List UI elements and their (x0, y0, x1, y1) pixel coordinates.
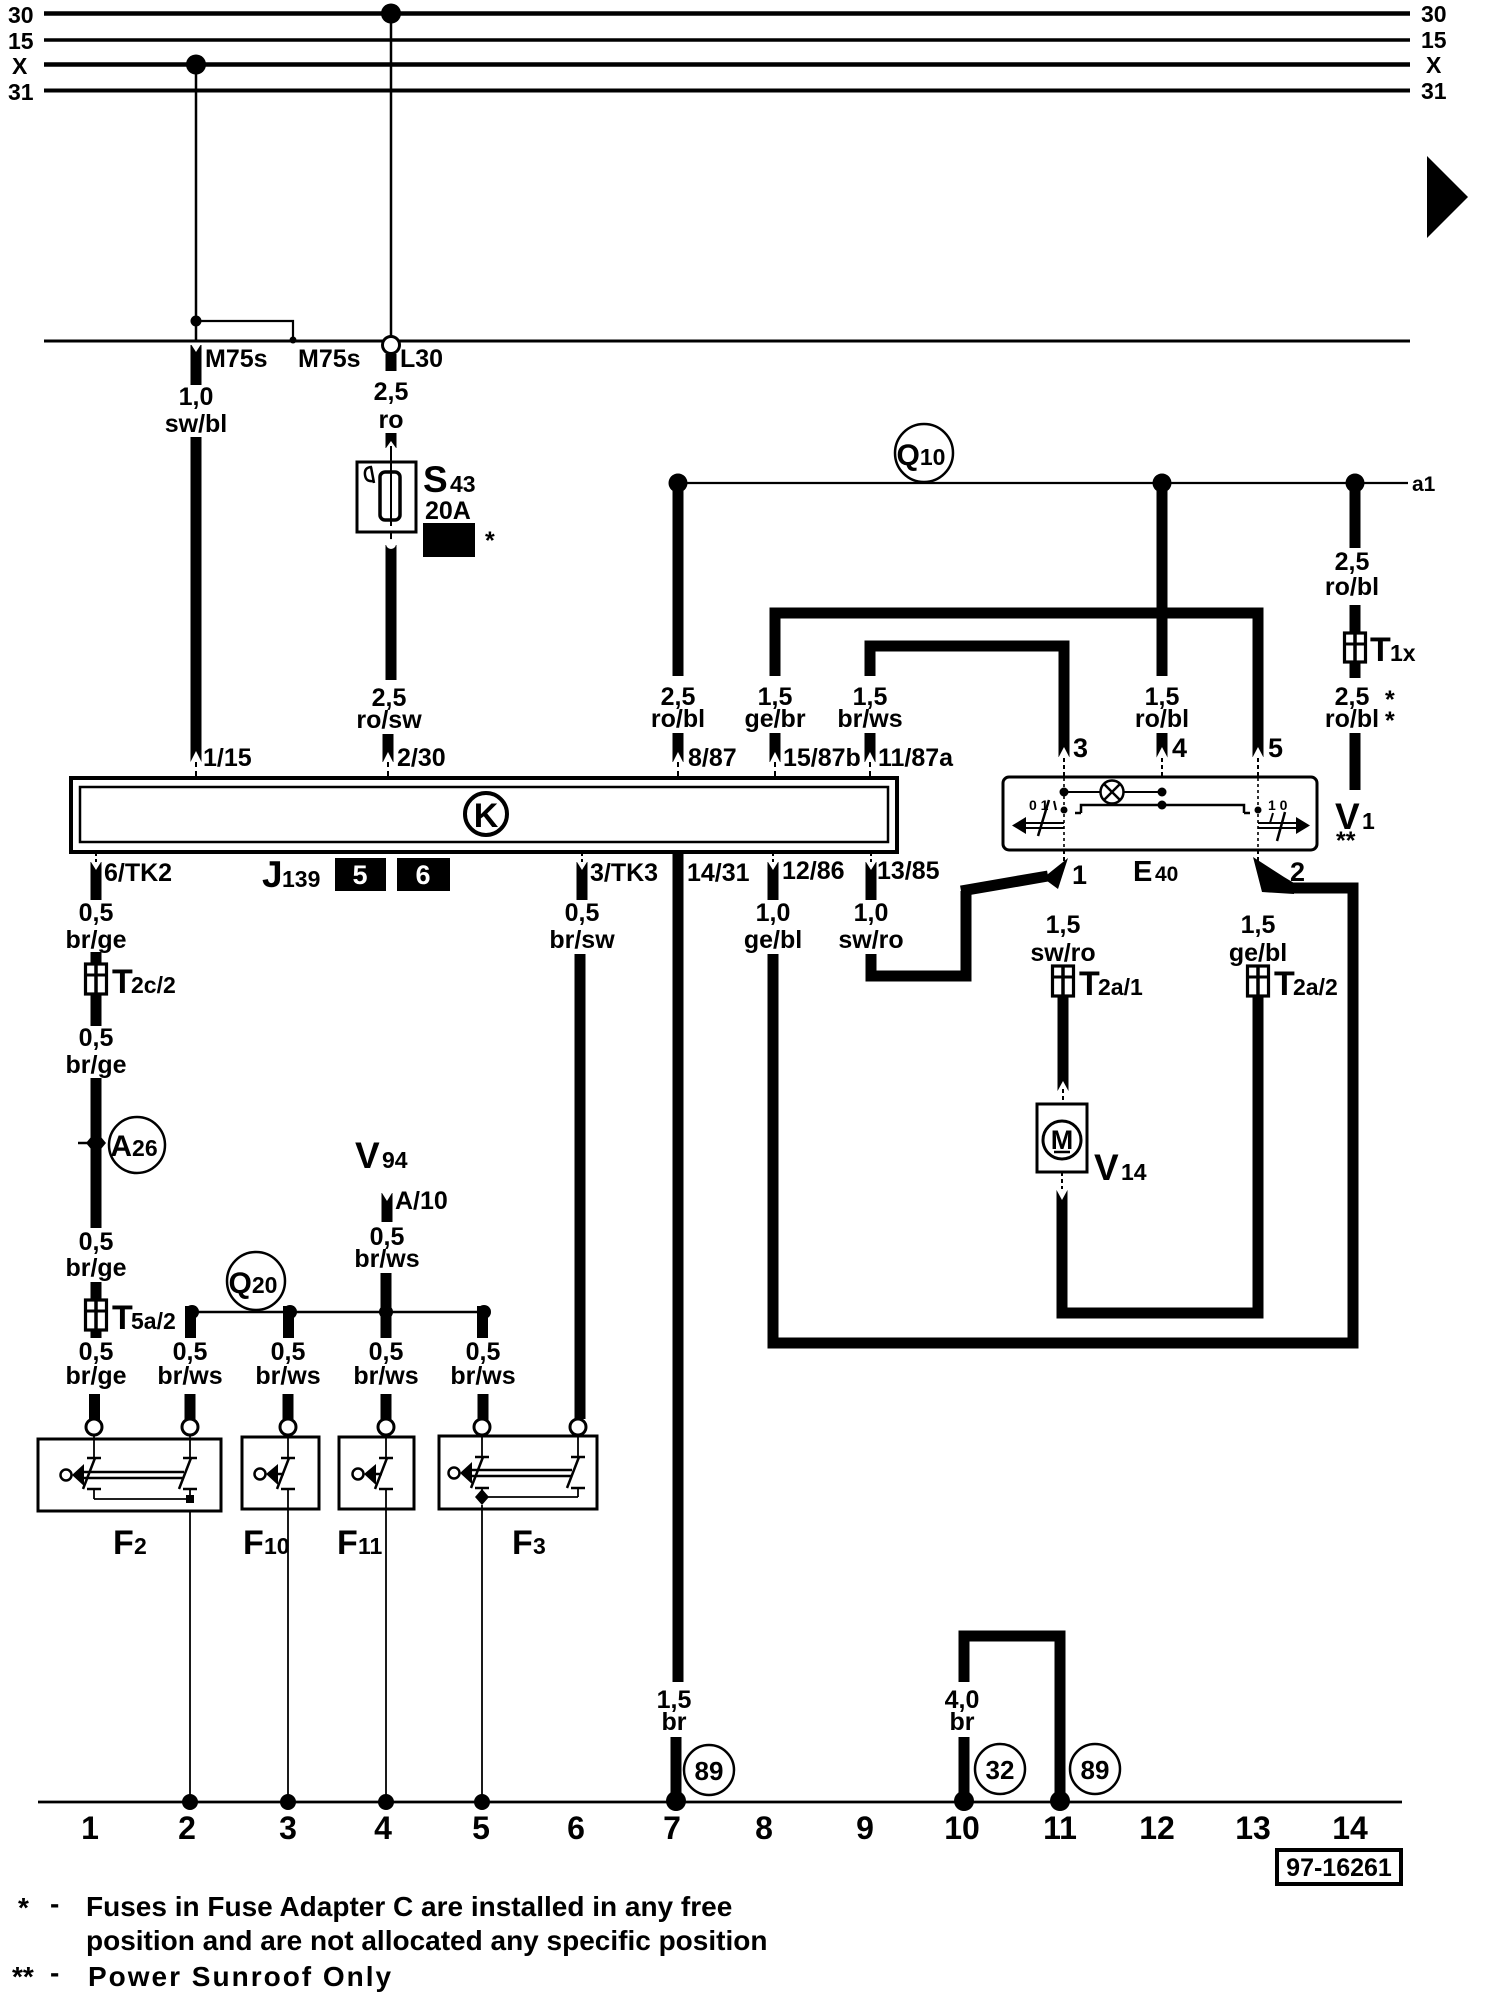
svg-text:3: 3 (1073, 733, 1088, 763)
svg-text:0,5: 0,5 (565, 899, 600, 927)
svg-text:0,5: 0,5 (79, 899, 114, 927)
lead 3/TK3 (581, 852, 583, 862)
svg-text:K: K (474, 797, 499, 835)
svg-text:4: 4 (1172, 733, 1187, 763)
F10 lead (287, 1435, 289, 1458)
svg-text:2: 2 (178, 1810, 196, 1846)
svg-text:2: 2 (134, 1533, 147, 1559)
svg-text:T: T (112, 1299, 133, 1337)
node A26 diamond (86, 1131, 106, 1155)
wire 2,5 ro/bl (V1 branch upper) (1350, 483, 1361, 548)
node track 7 (666, 1791, 686, 1811)
svg-text:Q10: Q10 (897, 439, 946, 472)
wire 1,5 ge/br elbow (15/87b to E40 pin5) (775, 613, 1258, 757)
node A26 tick (78, 1142, 88, 1145)
svg-text:1,0: 1,0 (756, 899, 791, 927)
lead below fuse (390, 532, 392, 552)
F11 arrow (364, 1464, 376, 1485)
F11 terminal socket (378, 1419, 394, 1435)
F3 right lead (577, 1435, 579, 1457)
wire branch to second M75s (196, 321, 293, 341)
svg-text:br/sw: br/sw (549, 926, 615, 954)
svg-text:1: 1 (1362, 808, 1375, 834)
ground wire 4,0 br loop (964, 1636, 1060, 1801)
svg-text:20A: 20A (425, 497, 471, 525)
wire F10 to track 3 (287, 1509, 289, 1802)
connector T1x (1345, 633, 1366, 662)
terminal 13/85 stub (866, 862, 877, 900)
E40 left blade (1038, 800, 1049, 836)
svg-text:15: 15 (8, 28, 34, 54)
svg-text:Q20: Q20 (229, 1267, 278, 1300)
F11 bottom contact (379, 1488, 393, 1491)
svg-text:F: F (113, 1524, 134, 1562)
F3 left contact (475, 1456, 489, 1459)
F10 arrow (266, 1464, 278, 1485)
lead into fuse (390, 446, 392, 526)
svg-text:ro/bl: ro/bl (651, 705, 705, 733)
svg-text:8/87: 8/87 (688, 744, 737, 772)
F3 terminal right socket (570, 1419, 586, 1435)
F11 lead (385, 1435, 387, 1458)
svg-text:6: 6 (567, 1810, 585, 1846)
svg-text:T: T (112, 963, 133, 1001)
fuse S43 box (357, 462, 416, 532)
wire F3 to track 5 (481, 1505, 483, 1802)
svg-text:a1: a1 (1412, 473, 1436, 496)
F2 arrow (72, 1464, 84, 1486)
svg-text:13/85: 13/85 (877, 857, 940, 885)
bus bar X (44, 62, 1410, 67)
wire 2,5 ro/bl (8/87) (673, 483, 684, 676)
svg-text:*: * (485, 527, 495, 555)
F11 contact (379, 1457, 393, 1460)
F3 link wire (482, 1496, 578, 1498)
switch F10 box (242, 1437, 319, 1509)
svg-text:br/ge: br/ge (65, 1362, 126, 1390)
junction node on bus 30 (381, 4, 401, 24)
svg-text:31: 31 (1421, 78, 1447, 104)
fuse S43 hook mark (365, 467, 374, 483)
node lamp left (1060, 788, 1069, 797)
svg-text:sw/ro: sw/ro (838, 926, 903, 954)
wire designation circle Q20 (227, 1252, 285, 1310)
svg-text:1,5: 1,5 (1046, 911, 1081, 939)
F10 contact (281, 1457, 295, 1460)
svg-text:2a/2: 2a/2 (1293, 974, 1338, 1000)
wire 1,5 ro/bl (to E40 pin4) (1157, 483, 1168, 676)
svg-text:5: 5 (1268, 733, 1283, 763)
bus bar 15 (44, 38, 1410, 42)
F2 left contact (87, 1457, 101, 1460)
terminal 12/86 stub (768, 862, 779, 900)
F2 left lead (93, 1435, 95, 1458)
relay position box 5 (335, 858, 386, 891)
node track 4 (378, 1794, 394, 1810)
svg-text:15: 15 (1421, 27, 1447, 53)
svg-text:E: E (1133, 856, 1152, 888)
svg-text:br/ws: br/ws (354, 1245, 419, 1273)
wire 6/TK2 to T2c/2 (91, 952, 102, 966)
connector T5a/2 (86, 1300, 107, 1330)
svg-text:J: J (262, 854, 283, 895)
wire below T2c/2 (91, 994, 102, 1026)
svg-text:ge/bl: ge/bl (1229, 939, 1287, 967)
relay K circle (465, 793, 507, 835)
svg-text:br/ws: br/ws (353, 1362, 418, 1390)
svg-text:F: F (243, 1524, 264, 1562)
svg-text:A26: A26 (110, 1130, 157, 1163)
bus bar 31 (44, 89, 1410, 93)
wire stub above fuse (386, 433, 397, 448)
E40 pin1 lead (1063, 850, 1065, 864)
ground wire lower (959, 1737, 970, 1801)
svg-text:11: 11 (358, 1533, 383, 1559)
terminal 6/TK2 stub (91, 862, 102, 900)
E40 lamp wire (1064, 791, 1162, 793)
svg-text:br: br (662, 1708, 687, 1736)
wire 2,5 ro/sw cup (386, 545, 397, 561)
ground designation circle 89 (track 11) (1070, 1744, 1120, 1794)
wire diagonal to pin2 (1253, 857, 1294, 894)
terminal 2/30 stub (383, 734, 394, 762)
node a1 line (678, 482, 1408, 484)
node bridge center (1158, 801, 1167, 810)
svg-text:0,5: 0,5 (79, 1024, 114, 1052)
terminal 15/87b stub (770, 733, 781, 762)
svg-text:br/ge: br/ge (65, 926, 126, 954)
node lamp right (1158, 788, 1167, 797)
node track 11 (1050, 1791, 1070, 1811)
svg-text:14: 14 (1121, 1159, 1147, 1185)
F10 terminal socket (280, 1419, 296, 1435)
svg-text:M75s: M75s (205, 345, 268, 373)
lead 13/85 (870, 852, 872, 862)
terminal A/10 stub (382, 1193, 393, 1222)
wire to A26 (91, 1078, 102, 1228)
svg-text:1,5: 1,5 (1241, 911, 1276, 939)
E40 bridge bar (1081, 805, 1244, 813)
svg-text:43: 43 (450, 471, 476, 497)
svg-text:ro/bl: ro/bl (1135, 705, 1189, 733)
svg-text:ro/sw: ro/sw (356, 706, 422, 734)
svg-text:1,0: 1,0 (179, 383, 214, 411)
svg-text:Power Sunroof Only: Power Sunroof Only (88, 1961, 393, 1992)
svg-text:139: 139 (282, 866, 320, 892)
svg-text:89: 89 (695, 1756, 724, 1786)
svg-text:-: - (50, 1957, 59, 1988)
node on wire at branch (191, 316, 202, 327)
relay position box 6 (397, 858, 450, 891)
svg-text:2,5: 2,5 (1335, 548, 1370, 576)
svg-text:5a/2: 5a/2 (131, 1308, 176, 1334)
terminal M75s notch (192, 345, 201, 352)
wire 1,0 sw/bl down to relay 1/15 (191, 437, 202, 762)
svg-text:8: 8 (755, 1810, 773, 1846)
svg-text:89: 89 (1081, 1755, 1110, 1785)
F2 bottom contact left (87, 1488, 101, 1491)
terminal 3/TK3 stub (577, 862, 588, 900)
F2 terminal left socket (86, 1419, 102, 1435)
svg-text:2/30: 2/30 (397, 744, 446, 772)
svg-text:12/86: 12/86 (782, 857, 845, 885)
svg-text:1x: 1x (1390, 640, 1416, 666)
svg-text:14/31: 14/31 (687, 859, 750, 887)
junction node 8/87 wire (669, 474, 688, 493)
F2 output node (186, 1495, 194, 1503)
svg-text:M: M (1051, 1125, 1074, 1155)
E40 right blade (1277, 812, 1285, 841)
E40 internal axis pin3 (1063, 778, 1065, 850)
wire 1,5 br (14/31) upper (673, 852, 684, 1682)
E40 right arrow (1258, 822, 1304, 824)
switch F3 box (439, 1436, 597, 1509)
wire stub to F11 (381, 1394, 392, 1423)
F2 right lead (189, 1435, 191, 1458)
svg-text:L30: L30 (400, 345, 443, 373)
svg-text:13: 13 (1235, 1810, 1271, 1846)
svg-text:3: 3 (279, 1810, 297, 1846)
svg-text:3/TK3: 3/TK3 (590, 859, 658, 887)
ground designation circle 32 (975, 1744, 1025, 1794)
wire stub to F10 (283, 1394, 294, 1423)
motor V14 lead top (1062, 1089, 1064, 1104)
wire stub to F2 right (185, 1394, 196, 1423)
svg-text:4: 4 (374, 1810, 392, 1846)
svg-text:10: 10 (944, 1810, 980, 1846)
svg-text:5: 5 (352, 860, 367, 890)
lead 1/15 to relay (195, 762, 197, 779)
wire to T5a/2 (91, 1282, 102, 1302)
lead 2/30 to relay (387, 762, 389, 779)
svg-text:40: 40 (1155, 863, 1178, 886)
svg-text:1,0: 1,0 (854, 899, 889, 927)
F10 pivot circle (255, 1469, 266, 1480)
Q20 stub 4 (477, 1306, 488, 1338)
svg-text:3: 3 (533, 1533, 546, 1559)
junction node V1 branch (1346, 474, 1365, 493)
terminal 11/87a stub (865, 733, 876, 762)
svg-text:5: 5 (472, 1810, 490, 1846)
svg-text:sw/ro: sw/ro (1030, 939, 1095, 967)
svg-text:2,5: 2,5 (374, 378, 409, 406)
motor V14 box (1037, 1104, 1087, 1172)
E40 pin3 terminal (1058, 747, 1070, 759)
bus bar 30 (44, 11, 1410, 16)
svg-text:position and are not allocated: position and are not allocated any speci… (86, 1925, 767, 1956)
connector T2a/2 (1248, 966, 1269, 996)
svg-text:F: F (337, 1524, 358, 1562)
F3 left lead (481, 1435, 483, 1457)
Q20 distribution rail (192, 1311, 484, 1314)
lead 12/86 (772, 852, 774, 862)
svg-text:br/ws: br/ws (255, 1362, 320, 1390)
separator rail (44, 340, 1410, 343)
node track 2 (182, 1794, 198, 1810)
fuse adapter black box (423, 523, 475, 557)
svg-text:ro/bl: ro/bl (1325, 705, 1379, 733)
F10 blade (277, 1458, 289, 1489)
terminal M75s stub (191, 345, 202, 385)
svg-text:S: S (423, 459, 448, 500)
wire stub above T1x (1350, 605, 1361, 634)
Q20 node V94 (379, 1305, 393, 1319)
svg-text:10: 10 (264, 1533, 290, 1559)
svg-text:15/87b: 15/87b (783, 744, 861, 772)
svg-text:9: 9 (856, 1810, 874, 1846)
svg-text:br/ws: br/ws (450, 1362, 515, 1390)
svg-text:V: V (1094, 1147, 1119, 1188)
svg-text:31: 31 (8, 79, 34, 105)
svg-text:12: 12 (1139, 1810, 1175, 1846)
svg-text:11/87a: 11/87a (878, 744, 954, 772)
E40 left arrow (1018, 822, 1064, 824)
lead 6/TK2 (95, 852, 97, 862)
Q20 stub 2 (283, 1306, 294, 1338)
wire designation circle A26 (109, 1117, 165, 1173)
F3 rod (470, 1469, 572, 1472)
F2 rod (82, 1471, 184, 1474)
wire to F2 (89, 1394, 100, 1423)
connector T2a/1 (1053, 966, 1074, 996)
wire 1,5 br lower (671, 1737, 682, 1801)
F3 right contact (571, 1456, 585, 1459)
relay plate outer box (71, 778, 897, 852)
svg-text:br/ge: br/ge (65, 1051, 126, 1079)
wire diagonal to pin1 (961, 876, 1048, 891)
track rail (38, 1801, 1402, 1804)
relay plate inner box (80, 787, 888, 842)
svg-text:*: * (1385, 707, 1395, 735)
F3 arrow (460, 1462, 472, 1484)
wire T2a/1 to motor (1058, 996, 1069, 1091)
E40 pin2 lead (1257, 850, 1259, 864)
junction node on bus X (186, 55, 206, 75)
svg-text:X: X (12, 53, 28, 79)
svg-text:32: 32 (986, 1755, 1015, 1785)
svg-text:7: 7 (663, 1810, 681, 1846)
svg-text:11: 11 (1043, 1810, 1077, 1846)
svg-text:br/ws: br/ws (837, 705, 902, 733)
svg-text:X: X (1426, 52, 1442, 78)
F2 left blade (83, 1458, 95, 1489)
svg-text:br: br (950, 1708, 975, 1736)
F3 left blade (471, 1457, 483, 1488)
terminal 8/87 stub (673, 733, 684, 762)
svg-text:14: 14 (1332, 1810, 1368, 1846)
drawing number box 97-16261 (1277, 1850, 1401, 1884)
F2 pivot circle (61, 1470, 72, 1481)
F2 terminal right socket (182, 1419, 198, 1435)
wire F11 to track 4 (385, 1509, 387, 1802)
Q20 stub 1 (185, 1306, 196, 1338)
F2 link wire (94, 1498, 190, 1500)
F2 right contact (183, 1457, 197, 1460)
svg-text:6: 6 (415, 860, 430, 890)
svg-text:30: 30 (8, 2, 34, 28)
svg-text:0,5: 0,5 (79, 1228, 114, 1256)
F3 right blade (567, 1457, 579, 1488)
svg-text:V: V (355, 1135, 380, 1176)
wire from bus 30 down to L30 (390, 14, 393, 339)
svg-text:A/10: A/10 (395, 1187, 448, 1215)
wire stub below T1x (1350, 662, 1361, 678)
E40 internal axis pin5 (1257, 778, 1259, 850)
E40 lamp (1101, 781, 1124, 804)
svg-text:2a/1: 2a/1 (1098, 974, 1143, 1000)
svg-text:ge/bl: ge/bl (744, 926, 802, 954)
svg-text:ro: ro (379, 406, 404, 434)
svg-text:Fuses in Fuse Adapter C are in: Fuses in Fuse Adapter C are installed in… (86, 1891, 732, 1922)
wire 1,0 sw/ro elbow (13/85 to E40 pin1) (871, 891, 966, 976)
svg-text:2c/2: 2c/2 (131, 972, 176, 998)
node at second M75s (290, 337, 297, 344)
fuse S43 element (380, 472, 400, 520)
E40 pin5 terminal (1252, 747, 1264, 759)
motor V14 lead bottom (1061, 1172, 1063, 1190)
svg-text:T: T (1274, 965, 1295, 1003)
wire below T5a/2 (91, 1330, 102, 1338)
wire motor to T2a/2 (1062, 996, 1258, 1313)
svg-text:1: 1 (1072, 860, 1087, 890)
svg-text:6/TK2: 6/TK2 (104, 859, 172, 887)
node track 10 (954, 1791, 974, 1811)
motor V14 symbol (1043, 1121, 1081, 1159)
svg-text:ge/br: ge/br (744, 705, 805, 733)
wire stub to F3 left (478, 1394, 489, 1423)
terminal L30 socket (383, 337, 400, 354)
svg-text:97-16261: 97-16261 (1286, 1854, 1392, 1882)
svg-text:br/ge: br/ge (65, 1254, 126, 1282)
svg-text:-: - (50, 1888, 59, 1919)
svg-text:M75s: M75s (298, 345, 361, 373)
wire 0,5 br/sw to F3 (575, 954, 586, 1419)
wire F2 to track 2 (189, 1511, 191, 1802)
svg-text:T: T (1370, 631, 1391, 669)
F2 right blade (179, 1458, 191, 1489)
svg-text:30: 30 (1421, 1, 1447, 27)
junction node ro/bl wire (1153, 474, 1172, 493)
terminal 1/15 notch (190, 751, 202, 763)
svg-text:ro/bl: ro/bl (1325, 573, 1379, 601)
svg-text:sw/bl: sw/bl (165, 410, 228, 438)
F3 bottom contact left (475, 1487, 489, 1490)
node track 3 (280, 1794, 296, 1810)
F3 terminal left socket (474, 1419, 490, 1435)
wire designation circle Q10 (895, 424, 953, 482)
svg-text:F: F (512, 1524, 533, 1562)
F3 pivot circle (449, 1468, 460, 1479)
wire 1,0 ge/bl loop (12/86 to E40 pin2) (773, 888, 1353, 1343)
connector T2c/2 (86, 964, 107, 994)
svg-text:br/ws: br/ws (157, 1362, 222, 1390)
F11 blade (375, 1458, 387, 1489)
svg-text:1 0: 1 0 (1268, 797, 1288, 813)
sunroof switch E40 box (1003, 777, 1317, 850)
E40 pin4 stub (1157, 733, 1168, 758)
svg-text:**: ** (1336, 827, 1356, 855)
wire V94 down through Q20 rail (381, 1273, 392, 1338)
switch F2 box (38, 1439, 221, 1511)
wire 2,5 ro/sw (386, 558, 397, 680)
svg-text:1: 1 (81, 1810, 99, 1846)
svg-text:1/15: 1/15 (203, 744, 252, 772)
E40 pin1 arrow (1043, 858, 1068, 889)
svg-text:**: ** (12, 1961, 34, 1992)
F11 pivot circle (353, 1469, 364, 1480)
wire to V1 (1350, 733, 1361, 790)
F3 output node (475, 1489, 489, 1505)
